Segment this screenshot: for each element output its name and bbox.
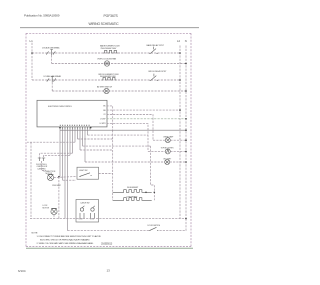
svg-text:LATCH SW: LATCH SW (81, 201, 90, 204)
node junction motor wire (58, 176, 60, 178)
wire drop breaker2 to row2b (51, 82, 53, 91)
node junction L2 row1 (179, 52, 181, 54)
svg-text:RH ELEMENT: RH ELEMENT (127, 187, 139, 189)
wire U1 pin BK to L2 (107, 109, 181, 111)
motor fan M1 symbol (104, 61, 109, 66)
notes block (32, 232, 102, 245)
node junction L2 row2 (179, 79, 181, 81)
bottom green rule (26, 247, 193, 249)
wire U1 pin LK right (107, 123, 149, 151)
U1 bottom pin number row (60, 124, 91, 126)
svg-text:316505013: 316505013 (101, 243, 113, 246)
node junction L2 pin BK (179, 109, 181, 111)
wire door switch row left (68, 230, 150, 232)
svg-text:ELECTRIC SHOCK OR PERSONAL INJ: ELECTRIC SHOCK OR PERSONAL INJURY HAZARD (40, 239, 90, 242)
lamp DS1 symbol (165, 138, 170, 143)
title rule (20, 27, 199, 29)
U1 bottom pins ticks (60, 127, 90, 129)
wire lamp DS1 row (153, 139, 186, 141)
svg-text:BROIL RELAY DPST: BROIL RELAY DPST (149, 70, 168, 73)
wire bundle horizontal runs (27, 135, 151, 219)
wire L1 bus (31, 43, 33, 80)
wire N bus (185, 46, 187, 220)
motor M4 symbol (51, 208, 57, 214)
resistor bake element R1 (103, 50, 118, 53)
schematic dashed border left (25, 33, 27, 246)
wire pin bundle verticals (60, 129, 90, 230)
svg-text:TOP BK LIGHTS: TOP BK LIGHTS (161, 148, 175, 150)
svg-text:1. DISCONNECT POWER BEFORE SER: 1. DISCONNECT POWER BEFORE SERVICING THI… (37, 235, 102, 238)
wire U1 pin1 down (107, 106, 113, 130)
node junction bottom row N (185, 218, 187, 220)
svg-text:2. WIRE COLORS MAY VARY. SEE W: 2. WIRE COLORS MAY VARY. SEE WIRING DIAG… (37, 242, 95, 245)
wire motor M4 to row (53, 215, 55, 219)
lamp DS3 symbol (165, 160, 170, 165)
node junction pin row right (90, 127, 92, 129)
switch S3 symbol (79, 173, 92, 177)
svg-text:PGF367S: PGF367S (104, 14, 119, 18)
breaker SW1 symbol (46, 50, 55, 56)
wire lamp DS2 row (148, 150, 186, 152)
svg-text:120V 60HZ: 120V 60HZ (52, 185, 62, 187)
svg-text:2500/3400W 240V: 2500/3400W 240V (101, 48, 117, 50)
wire plug to motor (42, 161, 47, 171)
svg-text:LT DSP: LT DSP (100, 119, 106, 121)
switch S5 symbol (149, 227, 159, 230)
svg-text:AT MTR SWITCH: AT MTR SWITCH (97, 85, 113, 88)
node junction N row1b (185, 63, 187, 65)
node junction element A right (145, 192, 147, 194)
schematic dashed border bottom (26, 245, 191, 247)
relay K1 contact symbol (149, 47, 158, 54)
resistor broil element R2 (102, 77, 117, 80)
wire row1b fan to N (52, 63, 186, 65)
resistor surface element B (113, 198, 152, 201)
wire row1 bake L1 to L2 (32, 52, 180, 54)
node junction L1 row1 (31, 52, 33, 54)
wire rail right elements (151, 146, 155, 200)
wire U1 pin CV to N (107, 118, 187, 120)
node junction N lamp2 (185, 151, 187, 153)
wire row to N below pins (60, 129, 186, 131)
wire N corner drop (160, 219, 187, 231)
op-amp U1 electronic oven control box (37, 100, 107, 127)
switch S4 terminal labels (79, 219, 95, 221)
resistor surface element A (113, 190, 152, 193)
wire row2 broil L1 to L2 (32, 79, 180, 81)
schematic dashed border right (190, 33, 192, 246)
breaker SW2 symbol (47, 77, 56, 83)
lamp DS2 symbol (165, 149, 170, 154)
schematic dashed border top (26, 32, 191, 34)
svg-text:NOTE:: NOTE: (32, 232, 39, 234)
switch S4a symbol (80, 206, 84, 219)
svg-text:6/104: 6/104 (18, 269, 26, 273)
svg-text:LK MTR: LK MTR (100, 123, 107, 125)
wire motor right to junction (54, 177, 77, 178)
svg-text:Publication No. 5995A10909: Publication No. 5995A10909 (24, 14, 60, 18)
motor fan M2 symbol (104, 88, 109, 93)
node junction N lamp1 (185, 139, 187, 141)
svg-text:DOUBLE LINE BREAK: DOUBLE LINE BREAK (42, 47, 60, 50)
node junction N lamp3 (185, 161, 187, 163)
wire rail left elements (112, 130, 114, 200)
U1 right pin labels (100, 106, 107, 126)
relay K2 contact symbol (150, 74, 159, 81)
wire S3 right to rail (99, 173, 113, 175)
wire long bottom row (30, 218, 186, 220)
svg-text:ELECTRONIC OVEN CONTROL: ELECTRONIC OVEN CONTROL (48, 106, 72, 108)
svg-text:OVEN COOLING FAN: OVEN COOLING FAN (97, 58, 117, 61)
wire lamp DS3 row from pin bundle (85, 161, 186, 163)
node junction N row2b (185, 90, 187, 92)
switch S4b symbol (91, 206, 95, 219)
svg-text:L1: L1 (30, 39, 34, 43)
svg-text:13: 13 (107, 268, 111, 272)
connector door plug symbol (38, 158, 45, 161)
wire U1 pin BB right (107, 115, 154, 141)
node junction pin row left (59, 127, 61, 129)
svg-text:BAKE RELAY DPST: BAKE RELAY DPST (147, 44, 165, 47)
svg-text:DOOR SWITCH: DOOR SWITCH (148, 225, 161, 227)
wire L2 bus (179, 46, 181, 220)
node junction N pin CV (185, 118, 187, 120)
wire row2b fan to N (52, 90, 186, 92)
svg-text:N: N (185, 39, 187, 43)
svg-text:WIRING SCHEMATIC: WIRING SCHEMATIC (89, 22, 120, 26)
svg-text:L2: L2 (177, 39, 181, 43)
motor M3 symbol (47, 174, 53, 180)
svg-text:LIGHT SW: LIGHT SW (79, 170, 88, 172)
switch S3 oven light switch box (77, 167, 99, 179)
node junction N row131 (185, 129, 187, 131)
svg-text:MOTOR: MOTOR (43, 207, 50, 209)
wire junction drop (58, 177, 60, 219)
switch S4 door latch box (76, 200, 99, 223)
wire drop breaker1 to row1b (51, 55, 53, 63)
